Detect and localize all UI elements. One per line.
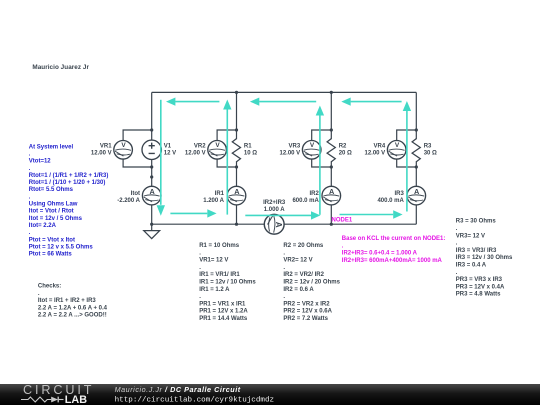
svg-text:A: A <box>329 187 335 196</box>
wire VR4 top lead <box>397 130 417 141</box>
svg-text:PR3 = 12V x 0.4A: PR3 = 12V x 0.4A <box>456 284 505 290</box>
annotation R2 calculations <box>283 243 340 322</box>
junction VR3 top node <box>330 128 333 131</box>
ammeter IR3 <box>407 186 426 205</box>
svg-text:A: A <box>274 222 283 228</box>
svg-text:10 Ω: 10 Ω <box>244 151 257 157</box>
current arrow: top rail leftward (span 3) <box>351 101 402 103</box>
voltmeter VR4 <box>387 141 406 160</box>
svg-text:R3 = 30 Ohms: R3 = 30 Ohms <box>456 219 497 225</box>
svg-text:A: A <box>234 187 240 196</box>
wire VR2 top lead <box>217 130 236 141</box>
svg-text:Vtot=12: Vtot=12 <box>29 159 52 165</box>
junction top rail at R2 <box>330 91 333 94</box>
svg-text:At System level: At System level <box>29 144 74 150</box>
svg-text:2.2 A = 1.2A + 0.6 A + 0.4: 2.2 A = 1.2A + 0.6 A + 0.4 <box>38 305 108 311</box>
wire VR2 bottom lead <box>217 159 236 167</box>
wire VR1 bottom lead <box>123 159 152 167</box>
svg-text:IR2 = 12v / 20 Ohms: IR2 = 12v / 20 Ohms <box>283 280 340 286</box>
ammeter Itot <box>142 186 161 205</box>
svg-text:R2 = 20 Ohms: R2 = 20 Ohms <box>283 243 324 249</box>
svg-text:A: A <box>414 187 420 196</box>
annotation R1 calculations <box>199 243 256 322</box>
svg-text:IR2 = 0.6 A: IR2 = 0.6 A <box>283 287 314 293</box>
svg-text:IR2+IR3= 0.6+0.4 = 1.000 A: IR2+IR3= 0.6+0.4 = 1.000 A <box>342 251 418 257</box>
svg-text:VR2: VR2 <box>194 143 206 149</box>
svg-text:Checks:: Checks: <box>38 284 61 290</box>
svg-text:30 Ω: 30 Ω <box>424 151 437 157</box>
svg-text:Mauricio Juarez Jr: Mauricio Juarez Jr <box>32 64 89 71</box>
voltmeter VR3 <box>302 141 321 160</box>
svg-text:R1 = 10 Ohms: R1 = 10 Ohms <box>199 243 240 249</box>
wire branch R1 top segment <box>236 92 238 139</box>
wire Itot to bottom rail <box>151 205 153 224</box>
svg-text:PR1 = 14.4 Watts: PR1 = 14.4 Watts <box>199 316 248 322</box>
svg-text:NODE1: NODE1 <box>332 217 353 223</box>
resistor R1 <box>232 139 240 162</box>
svg-text:R1: R1 <box>244 143 252 149</box>
svg-text:V: V <box>121 142 126 149</box>
svg-text:R2: R2 <box>339 143 347 149</box>
wire bottom rail right segment <box>284 223 416 225</box>
svg-text:IR1 = 12v / 10 Ohms: IR1 = 12v / 10 Ohms <box>199 280 256 286</box>
svg-text:600.0 mA: 600.0 mA <box>292 198 319 204</box>
junction top rail at R1 <box>235 91 238 94</box>
wire branch R3 top segment <box>415 92 417 139</box>
svg-text:VR4: VR4 <box>374 143 386 149</box>
junction VR4 bottom node <box>415 165 418 168</box>
svg-text:-2.200 A: -2.200 A <box>117 198 140 204</box>
svg-text:IR2: IR2 <box>309 191 319 197</box>
svg-text:Itot = Vtot / Rtot: Itot = Vtot / Rtot <box>29 209 74 215</box>
svg-text:Using Ohms Law: Using Ohms Law <box>29 202 78 208</box>
resistor R3 <box>412 139 420 162</box>
annotation system-level calculations (blue) <box>29 144 109 257</box>
svg-text:PR3 = VR3 x IR3: PR3 = VR3 x IR3 <box>456 277 503 283</box>
svg-text:12.00 V: 12.00 V <box>185 151 206 157</box>
svg-text:Ptot = 66 Watts: Ptot = 66 Watts <box>29 252 73 258</box>
svg-text:A: A <box>149 187 155 196</box>
svg-text:Itot= 2.2A: Itot= 2.2A <box>29 223 57 229</box>
wire IR2 to bottom rail <box>330 205 332 224</box>
wire VR4 bottom lead <box>397 159 417 167</box>
svg-text:PR2 = VR2 x IR2: PR2 = VR2 x IR2 <box>283 301 330 307</box>
annotation checks <box>38 284 108 319</box>
wire V1 to Itot <box>151 160 153 187</box>
svg-text:IR3 = 0.4 A: IR3 = 0.4 A <box>456 263 487 269</box>
svg-text:R3: R3 <box>424 143 432 149</box>
svg-text:12.00 V: 12.00 V <box>365 151 386 157</box>
voltmeter VR1 <box>114 141 133 160</box>
svg-text:Itot: Itot <box>131 191 140 197</box>
svg-text:Mauricio.J.Jr / DC Paralle Cir: Mauricio.J.Jr / DC Paralle Circuit <box>115 385 241 394</box>
resistor R2 <box>327 139 335 162</box>
junction ground node <box>150 223 153 226</box>
current arrow: branch1 downward flow line <box>160 100 162 205</box>
junction bottom rail at IR1 <box>235 223 238 226</box>
current arrow: top rail leftward (span 2) <box>259 101 316 103</box>
junction VR4 top node <box>415 128 418 131</box>
svg-text:IR1 = 1.2 A: IR1 = 1.2 A <box>199 287 230 293</box>
svg-text:VR1: VR1 <box>100 143 112 149</box>
current arrow: bottom rail rightward (span 3) <box>340 214 394 216</box>
annotation R3 calculations <box>456 219 513 298</box>
junction bottom rail at IR2 <box>330 223 333 226</box>
svg-text:V1: V1 <box>164 143 172 149</box>
svg-text:IR3 = 12v / 30 Ohms: IR3 = 12v / 30 Ohms <box>456 255 513 261</box>
svg-text:PR1 = 12V x 1.2A: PR1 = 12V x 1.2A <box>199 309 248 315</box>
voltage source V1 <box>142 140 161 159</box>
current arrow: branch4 upward flow line <box>406 111 408 212</box>
wire R3 to IR3 <box>415 161 417 186</box>
svg-text:Ptot = 12 v x 5.5 Ohms: Ptot = 12 v x 5.5 Ohms <box>29 244 94 250</box>
svg-text:LAB: LAB <box>65 394 87 405</box>
junction V1-Itot node <box>150 175 153 178</box>
svg-text:Rtot= 5.5 Ohms: Rtot= 5.5 Ohms <box>29 187 74 193</box>
junction VR3 bottom node <box>330 165 333 168</box>
svg-text:400.0 mA: 400.0 mA <box>377 198 404 204</box>
svg-text:12.00 V: 12.00 V <box>91 151 112 157</box>
current arrow: bottom rail rightward (span 1) <box>170 212 207 214</box>
CircuitLab logo <box>21 383 94 405</box>
ammeter IR2+IR3 (inline) <box>264 214 284 234</box>
wire bottom rail left segment <box>152 223 265 225</box>
annotation KCL note (magenta) <box>342 236 446 264</box>
junction VR2 top node <box>235 128 238 131</box>
svg-text:PR2 = 12V x 0.6A: PR2 = 12V x 0.6A <box>283 309 332 315</box>
wire IR1 to bottom rail <box>236 205 238 224</box>
svg-text:IR2+IR3= 600mA+400mA= 1000 mA: IR2+IR3= 600mA+400mA= 1000 mA <box>342 258 443 264</box>
svg-text:12.00 V: 12.00 V <box>280 151 301 157</box>
svg-text:Rtot=1 / (1/R1 + 1/R2 + 1/R3): Rtot=1 / (1/R1 + 1/R2 + 1/R3) <box>29 173 109 179</box>
current arrow: bottom rail rightward (span 2) <box>245 214 311 216</box>
svg-text:1.000 A: 1.000 A <box>264 207 285 213</box>
svg-text:Itot = 12v / 5 Ohms: Itot = 12v / 5 Ohms <box>29 216 83 222</box>
svg-text:Ptot = Vtot x Itot: Ptot = Vtot x Itot <box>29 237 75 243</box>
wire top rail <box>152 91 417 93</box>
svg-text:IR1 = VR1/ IR1: IR1 = VR1/ IR1 <box>199 272 240 278</box>
svg-text:V: V <box>215 142 220 149</box>
svg-text:Rtot=1 / (1/10 + 1/20 + 1/30): Rtot=1 / (1/10 + 1/20 + 1/30) <box>29 180 106 186</box>
svg-text:Itot = IR1 + IR2 + IR3: Itot = IR1 + IR2 + IR3 <box>38 298 97 304</box>
svg-text:PR2 = 7.2 Watts: PR2 = 7.2 Watts <box>283 316 328 322</box>
svg-text:VR3= 12 V: VR3= 12 V <box>456 233 485 239</box>
wire R1 to IR1 <box>236 161 238 186</box>
svg-text:IR2+IR3: IR2+IR3 <box>263 200 286 206</box>
svg-text:IR1: IR1 <box>215 191 225 197</box>
wire branch V1 top segment <box>151 92 153 140</box>
wire VR1 top lead <box>123 130 152 141</box>
svg-text:http://circuitlab.com/cyr9ktuj: http://circuitlab.com/cyr9ktujcdmdz <box>115 397 275 405</box>
svg-text:V: V <box>395 142 400 149</box>
svg-text:V: V <box>310 142 315 149</box>
current arrow: branch3 upward flow line <box>319 116 321 215</box>
svg-text:Base on KCL the current on NOD: Base on KCL the current on NODE1: <box>342 236 446 242</box>
svg-text:IR3 = VR3/ IR3: IR3 = VR3/ IR3 <box>456 248 497 254</box>
voltmeter VR2 <box>208 141 227 160</box>
svg-text:PR3 = 4.8 Watts: PR3 = 4.8 Watts <box>456 292 501 298</box>
wire VR3 bottom lead <box>312 159 332 167</box>
svg-text:1.200 A: 1.200 A <box>203 198 224 204</box>
svg-text:IR3: IR3 <box>394 191 404 197</box>
svg-text:VR3: VR3 <box>289 143 301 149</box>
ammeter IR1 <box>227 186 246 205</box>
wire R2 to IR2 <box>330 161 332 186</box>
svg-text:20 Ω: 20 Ω <box>339 151 352 157</box>
current arrow: top rail leftward (span 1) <box>175 101 219 103</box>
ground <box>144 224 160 238</box>
junction VR2 bottom node <box>235 165 238 168</box>
svg-text:12 V: 12 V <box>164 151 176 157</box>
current arrow: branch2 upward flow line <box>226 110 228 215</box>
svg-text:PR1 = VR1 x IR1: PR1 = VR1 x IR1 <box>199 301 246 307</box>
svg-text:VR1= 12 V: VR1= 12 V <box>199 258 228 264</box>
junction VR1 top node <box>150 128 153 131</box>
junction VR1 bottom node <box>150 165 153 168</box>
wire branch R2 top segment <box>330 92 332 139</box>
wire VR3 top lead <box>312 130 332 141</box>
ammeter IR2 <box>322 186 341 205</box>
svg-text:2.2 A = 2.2 A ...> GOOD!!: 2.2 A = 2.2 A ...> GOOD!! <box>38 313 107 319</box>
wire IR3 to bottom rail <box>415 205 417 224</box>
svg-text:IR2 = VR2/ IR2: IR2 = VR2/ IR2 <box>283 272 324 278</box>
svg-text:VR2= 12 V: VR2= 12 V <box>283 258 312 264</box>
